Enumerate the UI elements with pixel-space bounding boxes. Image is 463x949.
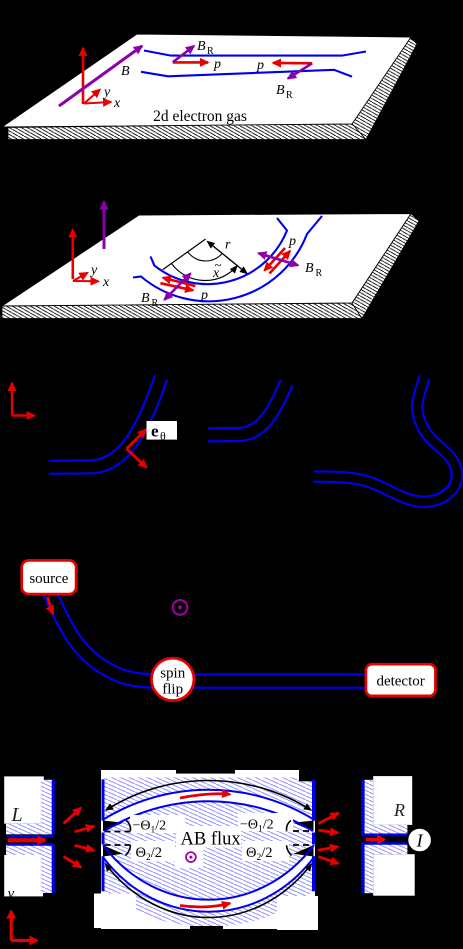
svg-text:R: R (152, 298, 159, 309)
mouth apertures (black wedges) (103, 821, 123, 832)
detector box (366, 664, 436, 696)
lower interferometer arm (103, 845, 315, 912)
y axis red arrow (panel 2) (73, 273, 88, 281)
central plate white background (101, 770, 315, 929)
svg-text:−Θ1/2: −Θ1/2 (133, 819, 167, 836)
curved wire outer edge (panel 2) (133, 216, 322, 301)
label box e_theta (147, 421, 178, 440)
svg-text:R: R (286, 90, 293, 101)
svg-text:B: B (197, 39, 206, 54)
svg-text:B: B (121, 64, 130, 79)
momentum arrows p (left cluster, panel 2) (163, 278, 195, 286)
bottom corner white blocks (94, 894, 136, 929)
svg-text:B: B (305, 261, 314, 276)
upper arm blue edges (103, 790, 315, 820)
right reservoir white blocks (373, 776, 412, 825)
2DEG plane (panel 1) (2, 34, 411, 127)
right reservoir slit lines (361, 834, 407, 836)
svg-text:spin: spin (160, 666, 186, 682)
svg-text:p: p (213, 57, 221, 72)
svg-text:source: source (29, 571, 68, 587)
momentum arrow p (left) (173, 61, 208, 64)
svg-text:R: R (207, 46, 214, 57)
angle arcs (hooks) (126, 821, 131, 831)
bottom axes arrows (panel 5) (10, 911, 13, 941)
trajectory arc over upper arm (106, 780, 311, 810)
svg-text:y: y (102, 85, 111, 100)
source box (22, 560, 76, 594)
svg-text:p: p (288, 234, 296, 249)
z axis red arrow (82, 48, 85, 104)
momentum arrows p (right cluster, panel 2) (270, 251, 291, 274)
2DEG slab bottom hatched edge (8, 124, 366, 140)
svg-text:y: y (89, 263, 98, 278)
wedge left radius line (163, 239, 206, 270)
svg-text:r: r (225, 238, 231, 253)
spin flip circle (152, 658, 194, 700)
svg-text:2d electron gas: 2d electron gas (153, 108, 247, 125)
tangent vector arrow e_theta (127, 430, 147, 449)
injected current arrow (left slit) (8, 838, 45, 842)
axes arrows (panel 3) (11, 383, 13, 416)
radius arrow r (double headed) (208, 242, 248, 274)
svg-text:e: e (151, 422, 159, 441)
central right wall (312, 779, 315, 820)
injected spin red arrow (48, 597, 53, 614)
svg-text:AB flux: AB flux (181, 830, 242, 850)
red arrow on upper arm (180, 794, 230, 798)
svg-text:x: x (102, 275, 110, 290)
Rashba field arrow BR (left) (173, 46, 194, 62)
upper interferometer arm (103, 790, 315, 831)
svg-text:flip: flip (162, 682, 183, 698)
central left wall (102, 779, 105, 820)
red arrow on lower arm (180, 903, 230, 907)
output current arrow (right slit) (366, 838, 385, 842)
z axis red arrow (panel 2) (72, 230, 75, 280)
svg-text:−Θ1/2: −Θ1/2 (240, 818, 274, 835)
svg-text:x: x (113, 96, 121, 111)
x axis red arrow (panel 2) (73, 280, 99, 282)
svg-text:detector: detector (376, 674, 424, 690)
bent wire (panel 3 left) (49, 378, 161, 468)
hatch band above upper arm (105, 778, 314, 821)
right reservoir hatched regions (365, 780, 374, 834)
svg-text:I: I (416, 831, 424, 851)
left reservoir wall (52, 780, 55, 835)
y axis red arrow (84, 90, 100, 104)
svg-text:~: ~ (215, 257, 222, 272)
slab right hatched edge (panel 2) (352, 214, 419, 319)
right reservoir wall (361, 780, 364, 834)
Rashba field double arrow (left cluster, panel 2) (164, 274, 190, 300)
lower arm blue edges (103, 845, 314, 900)
x axis red arrow (84, 102, 111, 104)
black notch top-center (176, 770, 235, 774)
dashed mouth axes (105, 831, 132, 833)
svg-text:y: y (6, 886, 15, 902)
Rashba field arrow BR (right) (288, 63, 312, 78)
AB flux circled dot (186, 852, 196, 862)
left fan arrows (64, 808, 81, 824)
2DEG slab right hatched edge (352, 37, 417, 140)
bent wire (panel 3 middle) (208, 383, 287, 435)
black notch top-right (299, 770, 315, 781)
hatch band below lower arm (103, 857, 315, 927)
curved wire inner edge (panel 2) (151, 218, 288, 284)
slab bottom hatched edge (panel 2) (2, 303, 362, 319)
right fan arrows (318, 813, 338, 824)
magnetic flux symbol (circled dot, panel 4) (173, 600, 188, 615)
current meter circle I (407, 828, 431, 852)
svg-text:p: p (200, 288, 208, 303)
Rashba field double arrow (right cluster, panel 2) (259, 253, 299, 265)
svg-text:p: p (256, 58, 264, 73)
trajectory arc under lower arm (106, 864, 312, 917)
wire upper edge (panel 1) (144, 51, 366, 56)
svg-text:R: R (316, 268, 323, 279)
svg-text:B: B (141, 291, 150, 306)
left reservoir hatched regions (41, 780, 54, 835)
wire from source to detector (50, 593, 366, 682)
small angle arc (188, 252, 223, 261)
label white boxes (130, 815, 185, 833)
in-plane field arrow B (59, 46, 142, 106)
wire lower edge (panel 1) (141, 70, 352, 77)
momentum arrow p (right) (273, 62, 312, 65)
serpentine wire (panel 3 right) (314, 377, 457, 502)
svg-text:B: B (276, 83, 285, 98)
hatch lens interior (103, 801, 314, 899)
svg-text:θ: θ (160, 429, 166, 443)
perpendicular field arrow B (purple, panel 2) (103, 202, 106, 250)
arc-length coordinate arrow (x tilde) (172, 264, 237, 281)
radial red arrow (127, 449, 147, 468)
2DEG plane (panel 2) (2, 214, 411, 307)
left reservoir white blocks (4, 776, 44, 823)
left reservoir slit lines (7, 835, 54, 838)
black bump bottom center (190, 926, 223, 930)
svg-text:L: L (11, 804, 23, 826)
svg-text:R: R (393, 800, 405, 820)
